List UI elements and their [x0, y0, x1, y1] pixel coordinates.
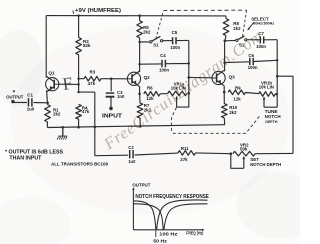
svg-text:47k: 47k — [82, 109, 90, 114]
svg-text:Q3: Q3 — [229, 74, 236, 79]
resistor R3 — [79, 76, 128, 81]
label C5 100n — [170, 30, 180, 50]
node INPUT terminal — [109, 107, 113, 111]
svg-text:C4: C4 — [160, 53, 166, 58]
arrow select — [247, 22, 254, 31]
note output level — [5, 150, 64, 162]
wire +9V rail — [46, 15, 226, 17]
node middle-C4 junction — [188, 62, 190, 64]
capacitor C2 — [130, 150, 133, 158]
resistor R5 — [137, 16, 143, 72]
node OUTPUT terminal — [11, 100, 14, 103]
label R10 2k2 — [229, 105, 238, 115]
transistor Q3 — [212, 70, 225, 86]
svg-text:R6: R6 — [147, 85, 153, 90]
resistor R9 — [228, 90, 258, 95]
svg-text:C5: C5 — [172, 30, 178, 35]
wire C2 branch — [94, 92, 96, 156]
resistor R8 — [223, 16, 229, 41]
capacitor C4 — [162, 60, 165, 67]
label FREQ (Hz) — [186, 230, 203, 235]
svg-text:60Hz/100Hz: 60Hz/100Hz — [253, 21, 274, 25]
node bootstrap junction — [77, 91, 79, 93]
svg-text:R3: R3 — [90, 70, 96, 75]
label 100 Hz — [159, 231, 178, 236]
svg-text:NOTCH: NOTCH — [265, 114, 281, 120]
label SET NOTCH DEPTH — [250, 157, 281, 167]
wire rail to Q1 collector — [45, 16, 47, 78]
label R8 2k2 — [233, 21, 241, 31]
wire C7 column — [276, 40, 278, 108]
label C4 100n — [159, 53, 169, 72]
wire Q3 collector — [224, 41, 226, 72]
transistor Q1 — [46, 76, 59, 92]
wire to C4 — [140, 63, 162, 65]
svg-text:100n: 100n — [170, 45, 180, 50]
switch S1b — [236, 36, 247, 42]
capacitor C5 — [173, 37, 176, 44]
wire VR1a wiper loop — [177, 93, 189, 107]
svg-text:THAN INPUT: THAN INPUT — [9, 155, 42, 161]
svg-text:1u0: 1u0 — [27, 107, 35, 112]
svg-text:Q1: Q1 — [48, 70, 55, 75]
label C7 100n — [256, 31, 266, 49]
svg-text:82k: 82k — [83, 43, 91, 48]
label VR2 50k — [240, 143, 249, 152]
wire Q3 emitter lead — [223, 86, 225, 92]
resistor R6 — [144, 92, 168, 97]
svg-text:+9V (HUMFREE): +9V (HUMFREE) — [75, 8, 121, 14]
label VR1b 10k LIN — [259, 80, 274, 89]
label R4 47k — [82, 105, 90, 114]
svg-text:INPUT: INPUT — [102, 114, 123, 120]
node +9V tick — [72, 11, 75, 14]
graph x-axis — [133, 229, 204, 231]
wire to C6 — [225, 61, 250, 64]
wire middle column — [188, 40, 190, 93]
svg-text:S1: S1 — [153, 43, 159, 48]
node S1a junction — [138, 41, 140, 43]
svg-text:2k2: 2k2 — [53, 112, 61, 117]
svg-text:NOTCH DEPTH: NOTCH DEPTH — [250, 162, 281, 167]
label R7 2k2 — [144, 103, 152, 112]
wire to S1a — [140, 41, 150, 43]
label 50Hz — [153, 239, 167, 244]
node C3 junction — [110, 78, 113, 81]
label INPUT — [102, 114, 123, 120]
curve 100Hz notch — [134, 204, 208, 229]
svg-text:FREQ (Hz): FREQ (Hz) — [186, 230, 203, 235]
resistor R2 — [76, 16, 82, 93]
wire 0V rail — [47, 125, 225, 128]
svg-text:100 Hz: 100 Hz — [159, 231, 178, 236]
capacitor C1 — [29, 98, 32, 106]
svg-text:R11: R11 — [181, 146, 189, 151]
svg-text:1n0: 1n0 — [117, 94, 125, 99]
node C4 junction — [138, 63, 140, 65]
label VR1a 10k LIN — [171, 82, 186, 91]
resistor R1 — [45, 103, 51, 128]
node output junction — [46, 102, 49, 105]
resistor R4 — [76, 104, 82, 127]
label graph OUTPUT — [132, 182, 150, 187]
wire Q1 base — [59, 83, 79, 85]
node Q2 emitter junction — [138, 93, 141, 96]
node Q3 emitter junction — [223, 91, 226, 94]
svg-text:Q2: Q2 — [144, 75, 151, 80]
wiper VR1a — [175, 96, 178, 107]
wire bootstrap link — [79, 91, 95, 93]
label Q1 — [48, 70, 55, 75]
wire Q3 base — [189, 76, 212, 78]
resistor R11 — [178, 151, 196, 156]
curve 50Hz notch — [134, 200, 208, 229]
wire C2 to R11 — [135, 153, 178, 155]
wire R11 to VR2 — [196, 152, 231, 155]
svg-text:47k: 47k — [88, 81, 96, 86]
svg-text:2k2: 2k2 — [229, 110, 237, 115]
wire Q2 emitter lead — [139, 87, 141, 94]
svg-text:DEPTH: DEPTH — [265, 120, 278, 124]
label +9V (HUMFREE) — [75, 8, 121, 14]
svg-text:OUTPUT: OUTPUT — [132, 182, 150, 187]
label S1a — [153, 43, 159, 48]
link VR1 gang dashed — [171, 108, 259, 134]
label R3 47k — [88, 70, 96, 87]
node C6 junction — [223, 61, 226, 64]
node C2 branch crossing — [94, 126, 97, 129]
svg-text:50 Hz: 50 Hz — [153, 239, 167, 244]
wire C6 to column — [254, 60, 277, 61]
note transistors — [51, 161, 108, 166]
svg-text:2k2: 2k2 — [143, 29, 151, 34]
label R11 27k — [180, 146, 189, 162]
label SELECT 60Hz/100Hz — [251, 16, 274, 25]
label R2 82k — [83, 39, 91, 48]
wire C7 to column — [264, 39, 277, 41]
svg-text:100n: 100n — [256, 44, 266, 49]
label R9 12k — [233, 85, 241, 101]
label Q2 — [144, 75, 151, 80]
potentiometer VR1a — [168, 91, 187, 96]
label C3 1n0 — [117, 90, 125, 99]
svg-text:C7: C7 — [258, 31, 264, 36]
wire C1 to junction — [34, 102, 48, 104]
svg-text:2k2: 2k2 — [144, 107, 152, 112]
wire to S1b — [225, 39, 236, 41]
svg-text:C2: C2 — [128, 145, 134, 150]
label output asterisk — [13, 90, 16, 97]
transistor Q2 — [127, 71, 140, 87]
watermark F glyph — [61, 73, 74, 94]
node Q3 base junction — [188, 76, 191, 79]
potentiometer VR1b — [259, 92, 276, 97]
resistor R7 — [137, 94, 143, 127]
node base junction — [77, 83, 79, 85]
switch S1a — [150, 36, 163, 43]
wire C5 to column — [177, 39, 189, 41]
graph y-axis — [132, 187, 134, 230]
svg-text:ALL TRANSISTORS BC109: ALL TRANSISTORS BC109 — [51, 161, 108, 166]
node R3 junction — [77, 78, 79, 80]
svg-text:1u0: 1u0 — [128, 159, 136, 164]
leader 50Hz — [155, 230, 157, 237]
node rail-R2 junction — [77, 14, 79, 16]
label S1b — [239, 43, 245, 48]
node VR2 left junction — [230, 152, 233, 155]
svg-text:S1: S1 — [239, 43, 245, 48]
wire VR2 wiper loop — [231, 154, 244, 169]
scan tone blobs — [0, 30, 44, 106]
wiper VR1b — [263, 96, 266, 107]
node VR1b right junction — [275, 93, 278, 96]
label OUTPUT — [6, 94, 23, 99]
svg-text:12k: 12k — [233, 97, 241, 102]
label C2 1u0 — [128, 145, 136, 164]
node C6-column junction — [276, 59, 278, 61]
label Q3 — [229, 74, 236, 79]
label R6 12k — [146, 85, 154, 101]
label TUNE NOTCH — [265, 109, 281, 124]
wire output — [13, 101, 27, 103]
label graph title — [135, 194, 209, 200]
node rail-R5 junction — [138, 14, 141, 17]
node S1b junction — [224, 40, 227, 43]
svg-text:100n: 100n — [159, 67, 169, 72]
capacitor C6 — [250, 58, 253, 65]
wire S1b to C7 — [247, 39, 260, 41]
link S1 gang dashed — [156, 10, 247, 39]
resistor R10 — [222, 92, 228, 125]
svg-text:100n: 100n — [248, 65, 258, 70]
svg-text:C1: C1 — [27, 92, 33, 97]
label R1 2k2 — [53, 108, 61, 117]
svg-text:R9: R9 — [235, 85, 241, 90]
svg-text:10k LIN: 10k LIN — [171, 85, 186, 90]
wire VR2 right — [255, 152, 293, 154]
potentiometer VR2 — [233, 151, 255, 156]
svg-text:50k: 50k — [240, 147, 248, 152]
node right branch junction — [276, 75, 279, 78]
svg-text:10k LIN: 10k LIN — [259, 84, 274, 89]
node VR1a right junction — [188, 92, 191, 95]
wire Q1 emitter — [46, 90, 49, 103]
ground — [57, 127, 67, 139]
wire to C2 — [95, 154, 128, 157]
svg-text:NOTCH FREQUENCY RESPONSE: NOTCH FREQUENCY RESPONSE — [135, 194, 209, 200]
node ground junction — [62, 126, 65, 129]
label C1 — [27, 92, 35, 111]
wire right column — [277, 76, 293, 153]
node R7 bottom junction — [139, 125, 142, 128]
wire C4 to column — [166, 63, 189, 65]
svg-text:2k2: 2k2 — [233, 26, 241, 31]
capacitor C3 — [106, 79, 115, 107]
capacitor C7 — [260, 36, 263, 43]
wiper VR2 — [242, 156, 245, 168]
wire S1a to C5 — [163, 40, 172, 42]
svg-text:12k: 12k — [146, 96, 154, 101]
node R4 bottom junction — [77, 126, 80, 129]
wire VR1b wiper loop — [264, 106, 277, 108]
label R5 2k2 — [143, 25, 151, 34]
svg-text:27k: 27k — [180, 157, 188, 162]
label C6 100n — [248, 53, 258, 70]
svg-text:C6: C6 — [248, 53, 254, 58]
